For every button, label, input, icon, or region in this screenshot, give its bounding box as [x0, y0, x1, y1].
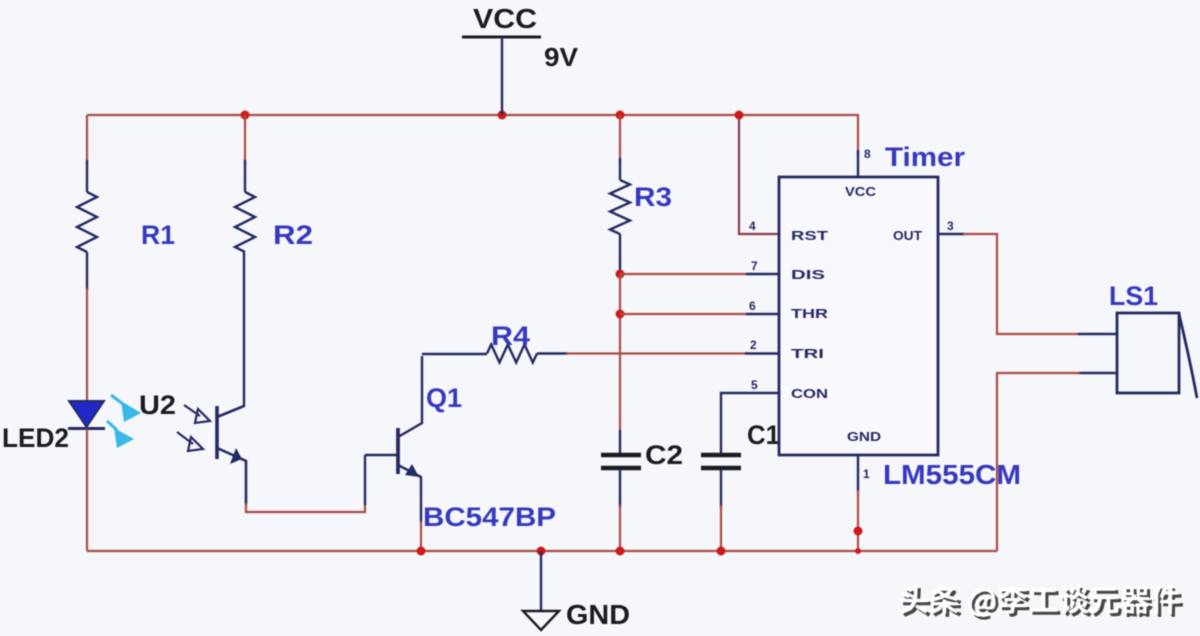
svg-text:9V: 9V [544, 42, 579, 72]
svg-text:VCC: VCC [473, 3, 537, 34]
svg-text:U2: U2 [139, 390, 176, 420]
svg-text:CON: CON [791, 386, 828, 401]
junction dot R3 top [616, 111, 625, 120]
watermark text white [900, 585, 1180, 617]
wire IC GND pin to rail [857, 455, 859, 492]
transistor Q1 [398, 356, 422, 523]
svg-text:LS1: LS1 [1109, 281, 1158, 311]
svg-text:R2: R2 [273, 220, 313, 250]
resistor R2 [235, 160, 255, 252]
ground GND symbol [523, 551, 559, 630]
wire CON pin to C1 [721, 393, 779, 454]
svg-text:LED2: LED2 [2, 423, 69, 453]
junction dot C1 ground [717, 547, 726, 556]
svg-text:TRI: TRI [791, 346, 824, 361]
wire top VCC rail [87, 115, 858, 155]
junction dot THR node [616, 310, 625, 319]
wire speaker return to ground rail [1078, 372, 1117, 374]
LED LED2 [68, 401, 105, 429]
svg-text:DIS: DIS [791, 267, 826, 282]
svg-text:3: 3 [947, 219, 954, 233]
wire R3 top lead [619, 115, 621, 165]
speaker LS1 [1117, 313, 1197, 398]
power VCC symbol [462, 37, 541, 115]
wire Q1 emitter to ground rail [420, 521, 422, 551]
svg-text:8: 8 [864, 147, 871, 161]
wire R4 to TRI pin [566, 352, 747, 354]
svg-text:5: 5 [751, 378, 758, 392]
Q1 emitter arrowhead [405, 464, 419, 477]
junction dot GND rail [855, 548, 861, 554]
wire RST branch (rail to pin4) [739, 115, 779, 234]
LED2 light arrow 2 (cyan) [107, 421, 134, 448]
wire bottom ground rail [87, 550, 997, 552]
LED2 light arrow 1 (cyan) [111, 395, 141, 422]
junction dot GND stem [537, 547, 546, 556]
wire OUT pin to speaker [938, 233, 965, 235]
svg-text:2: 2 [750, 338, 757, 352]
wire DIS pin (R3 bottom to pin7) [620, 273, 748, 275]
U2 emitter arrowhead [230, 448, 242, 464]
wire R2 bottom to U2 collector [243, 252, 245, 407]
svg-text:R1: R1 [141, 220, 175, 250]
svg-text:6: 6 [749, 299, 756, 313]
resistor R4 [422, 345, 568, 363]
capacitor C1 [701, 455, 741, 508]
wire C2 bottom to ground rail [619, 505, 621, 551]
svg-text:GND: GND [847, 429, 881, 444]
op IC U1 LM555CM box [779, 177, 938, 455]
junction dot GND pin net [854, 527, 863, 536]
junction dot VCC stem [498, 111, 507, 120]
wire left rail lower (LED2 to ground rail) [86, 429, 88, 551]
wire THR pin (pin6) [620, 313, 748, 315]
svg-text:GND: GND [566, 599, 630, 630]
svg-text:C2: C2 [645, 440, 683, 470]
wire Q1 base lead [365, 454, 397, 456]
wire IC VCC pin stub [857, 150, 859, 177]
svg-text:7: 7 [751, 259, 758, 273]
wire U2 emitter to Q1 base [246, 503, 365, 512]
U2 light arrow 2 [177, 432, 203, 451]
svg-text:R4: R4 [491, 321, 530, 351]
wire C1 bottom to ground rail [720, 505, 722, 551]
wire DIS to THR vertical [619, 274, 621, 432]
svg-text:BC547BP: BC547BP [423, 502, 556, 532]
wire TRI pin lead [745, 352, 779, 354]
optocoupler U2 phototransistor [217, 406, 246, 505]
junction dot Q1 emitter [417, 547, 426, 556]
svg-text:Timer: Timer [885, 142, 966, 172]
watermark shadow [903, 588, 1183, 620]
junction dot DIS node [616, 270, 625, 279]
U2 light arrow 1 [184, 405, 210, 423]
wire left rail upper (R1 top lead from rail) [86, 115, 88, 165]
svg-text:VCC: VCC [845, 184, 877, 199]
svg-text:4: 4 [749, 219, 756, 233]
resistor R3 [610, 158, 630, 272]
junction dot C2 ground [616, 547, 625, 556]
svg-text:1: 1 [863, 467, 870, 481]
junction dot R2 top [241, 111, 250, 120]
svg-text:C1: C1 [747, 420, 780, 450]
wire left rail mid (R1 to LED2) [86, 288, 88, 402]
svg-text:THR: THR [791, 306, 829, 321]
svg-text:R3: R3 [634, 182, 672, 212]
svg-text:OUT: OUT [893, 228, 922, 243]
junction dot RST top [735, 111, 744, 120]
resistor R1 [77, 160, 97, 290]
wire R2 top lead from rail [244, 115, 246, 165]
capacitor C2 [601, 430, 641, 508]
svg-text:Q1: Q1 [426, 383, 462, 413]
svg-text:LM555CM: LM555CM [883, 459, 1021, 490]
svg-text:RST: RST [791, 228, 828, 243]
